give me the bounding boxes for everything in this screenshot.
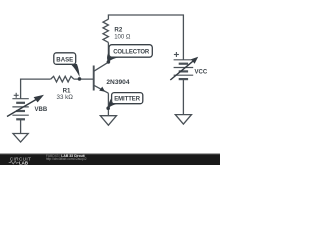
svg-text:COLLECTOR: COLLECTOR (113, 50, 150, 56)
footer watermark bar (0, 154, 220, 165)
ground (VBB) (13, 134, 28, 143)
node C junction dot (107, 60, 111, 64)
svg-text:http://circuitlab.com/c2auq42: http://circuitlab.com/c2auq42 (46, 157, 87, 161)
flag COLLECTOR box (109, 45, 152, 58)
resistor R2 (103, 19, 108, 42)
node E junction dot (106, 106, 110, 110)
wire VBB to ground (20, 119, 22, 133)
transistor Q1 2N3904 (NPN) (94, 62, 109, 93)
svg-text:33 kΩ: 33 kΩ (57, 94, 74, 101)
wire R1 to base (74, 78, 94, 80)
flag EMITTER callout tail (108, 97, 120, 109)
VBB plus sign (14, 93, 19, 98)
svg-text:EMITTER: EMITTER (114, 97, 141, 103)
VCC plus sign (174, 52, 179, 57)
svg-text:LAB: LAB (19, 160, 28, 165)
node flag COLLECTOR (107, 45, 153, 64)
resistor R1 (51, 76, 74, 82)
VCC adjustable arrow (170, 60, 194, 80)
node flag EMITTER (106, 93, 142, 110)
svg-text:100 Ω: 100 Ω (114, 35, 131, 41)
svg-text:2N3904: 2N3904 (106, 79, 129, 86)
flag COLLECTOR callout tail (107, 50, 119, 62)
flag BASE callout tail (70, 64, 79, 77)
wire emitter down to ground (107, 93, 109, 115)
VBB adjustable arrow (7, 98, 40, 117)
wire VCC to ground (182, 79, 184, 114)
svg-text:VBB: VBB (35, 107, 48, 113)
flag EMITTER box (112, 93, 143, 104)
flag BASE box (54, 53, 76, 65)
wire VBB to R1 (21, 79, 51, 99)
ground (VCC) (175, 115, 191, 125)
emitter arrowhead (99, 87, 105, 92)
node B junction dot (78, 77, 82, 81)
svg-text:VCC: VCC (195, 69, 208, 75)
svg-text:R2: R2 (114, 27, 122, 34)
wire top rail from R2 to VCC (108, 15, 183, 60)
voltage source VCC (174, 60, 194, 79)
node flag BASE (54, 53, 81, 81)
ground (emitter) (100, 116, 116, 126)
wire R2 bottom to collector node (107, 42, 109, 62)
svg-text:BASE: BASE (56, 57, 73, 64)
voltage source VBB (12, 99, 28, 120)
